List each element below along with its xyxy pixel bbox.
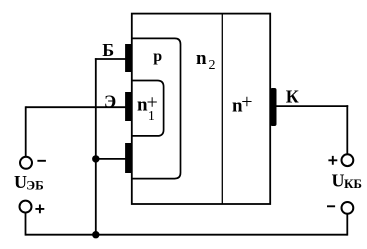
svg-text:2: 2 xyxy=(209,58,216,73)
svg-text:Б: Б xyxy=(102,40,114,60)
plus sign (right top) xyxy=(328,156,337,165)
svg-text:U: U xyxy=(14,172,27,192)
plus sign (left bottom) xyxy=(35,205,44,214)
svg-text:К: К xyxy=(286,86,299,106)
svg-text:1: 1 xyxy=(148,109,155,124)
base contact bar B (top) xyxy=(125,44,131,72)
transistor body outline xyxy=(132,14,270,204)
minus sign (left top) xyxy=(37,160,46,162)
wire: emitter drop to terminal xyxy=(25,106,27,156)
terminal circle: U_EB plus xyxy=(20,201,32,213)
wire: collector horizontal xyxy=(277,105,349,107)
wire: bottom base contact xyxy=(95,158,126,160)
wire: vertical bus xyxy=(95,58,97,235)
wire: base to vertical bus xyxy=(95,58,126,60)
p region boundary xyxy=(131,38,181,178)
n1+ region boundary xyxy=(131,81,164,136)
svg-text:+: + xyxy=(241,91,252,113)
wire: right terminal drop xyxy=(346,214,348,235)
terminal circle: U_KB minus xyxy=(342,202,354,214)
n2 / n+ region divider xyxy=(221,14,223,204)
minus sign (right bottom) xyxy=(327,205,335,207)
terminal circle: U_EB minus xyxy=(20,157,32,169)
terminal circle: U_KB plus xyxy=(342,154,354,166)
svg-text:U: U xyxy=(332,171,345,191)
wire: left terminal drop xyxy=(25,213,27,236)
svg-text:p: p xyxy=(153,48,162,65)
wire: bottom bus xyxy=(26,234,348,236)
junction dot lower base xyxy=(92,155,99,162)
wire: collector down to terminal xyxy=(346,105,348,154)
svg-text:n: n xyxy=(196,48,207,69)
collector contact bar K xyxy=(270,88,276,126)
base contact bar (bottom) xyxy=(125,143,131,173)
svg-text:КБ: КБ xyxy=(344,176,362,191)
svg-text:ЭБ: ЭБ xyxy=(26,177,43,192)
emitter contact bar E xyxy=(125,92,131,121)
wire: emitter horizontal xyxy=(26,106,126,108)
junction dot bottom bus xyxy=(92,231,99,238)
svg-text:Э: Э xyxy=(104,91,116,111)
